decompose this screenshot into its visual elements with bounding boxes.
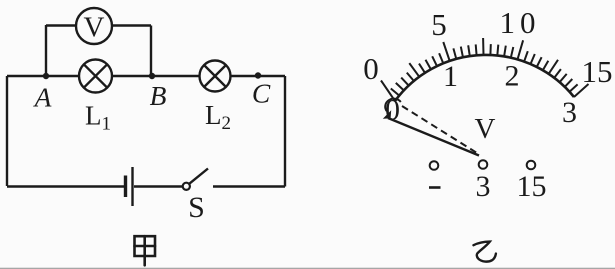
wire: battery to switch <box>134 185 183 187</box>
terminal minus dash label <box>429 186 441 189</box>
terminal 3 circle <box>479 160 488 169</box>
switch S pivot circle <box>183 183 190 190</box>
wire: voltmeter branch left horizontal <box>46 24 76 26</box>
meter scale tick marks <box>381 38 589 101</box>
wire: bottom left to battery <box>7 185 124 187</box>
wire: voltmeter branch riser from node A <box>45 25 47 76</box>
svg-text:V: V <box>84 12 105 44</box>
wire: left vertical side of loop <box>6 76 8 186</box>
svg-text:S: S <box>188 191 205 224</box>
svg-text:2: 2 <box>505 60 520 93</box>
svg-text:0: 0 <box>363 51 379 86</box>
label yi (right figure caption) <box>474 242 496 262</box>
svg-text:B: B <box>150 80 167 111</box>
svg-text:C: C <box>252 78 271 109</box>
wire: lamp L2 to right corner <box>231 75 286 77</box>
svg-text:10: 10 <box>500 5 541 40</box>
terminal 15 circle <box>527 161 536 170</box>
battery cell: long positive plate <box>131 167 133 206</box>
battery cell: short negative plate <box>124 176 127 198</box>
wire: top main wire from left corner to lamp L1 <box>7 75 79 77</box>
svg-text:1: 1 <box>443 60 458 93</box>
svg-text:15: 15 <box>582 54 613 89</box>
switch S open arm <box>189 169 208 184</box>
voltmeter V1 circle <box>76 8 112 44</box>
svg-text:5: 5 <box>431 7 447 42</box>
node A junction dot <box>43 73 49 79</box>
wire: voltmeter branch drop to node B <box>150 26 152 77</box>
svg-text:3: 3 <box>476 170 491 203</box>
meter scale arc <box>395 55 574 101</box>
svg-text:V: V <box>475 113 496 145</box>
terminal minus circle <box>430 161 439 170</box>
lamp L2 circle with cross <box>200 61 231 92</box>
wire: switch to bottom right corner <box>213 185 285 187</box>
wire: voltmeter branch right horizontal <box>112 24 151 26</box>
node B junction dot <box>149 73 155 79</box>
wire: lamp L1 to lamp L2 <box>112 75 200 77</box>
curved deflection arrow around zero <box>383 99 401 119</box>
svg-text:15: 15 <box>517 170 547 203</box>
wire: right vertical side of loop <box>284 76 286 187</box>
svg-text:3: 3 <box>562 96 577 129</box>
label jia (left figure caption) <box>135 236 156 265</box>
node C junction dot <box>255 72 261 78</box>
lamp L1 circle with cross <box>79 60 112 93</box>
svg-text:A: A <box>33 82 52 113</box>
needle solid pointer deflected left of zero <box>388 118 479 156</box>
needle rest position dashed line to zero mark <box>402 106 477 153</box>
bottom page edge line <box>0 267 615 269</box>
